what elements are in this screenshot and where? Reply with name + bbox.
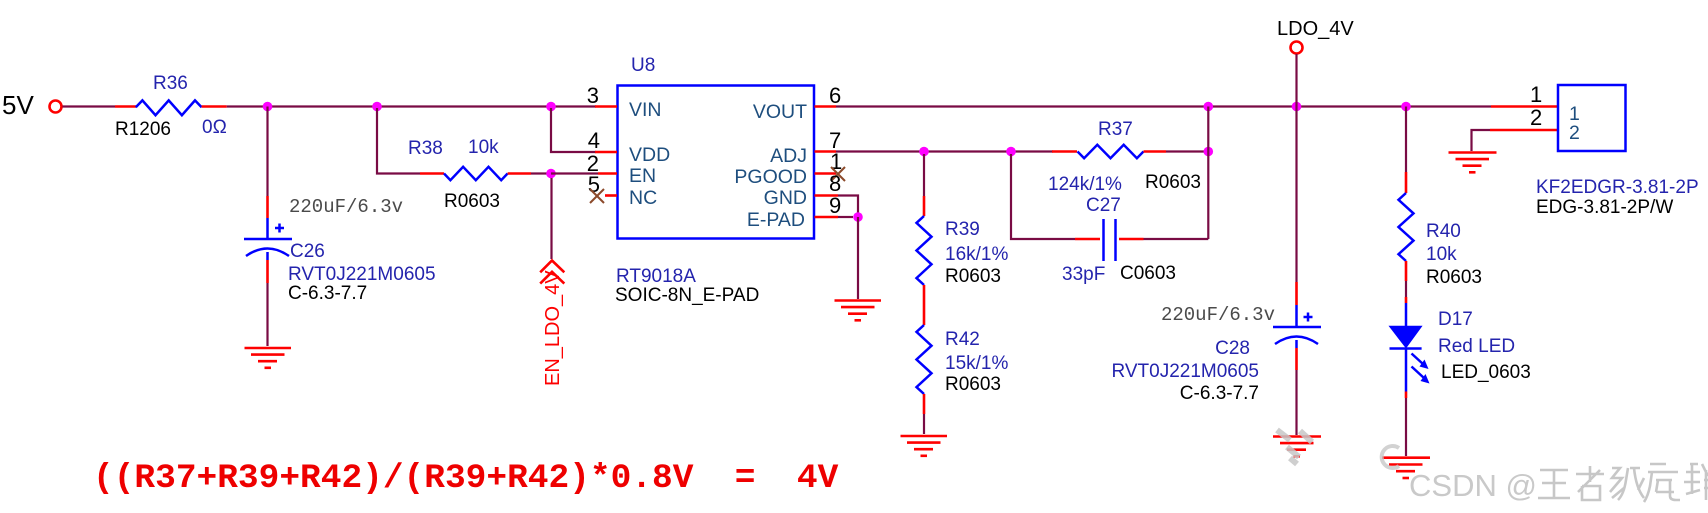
connector J pin 1 (1491, 82, 1558, 107)
svg-text:EN_LDO_4V: EN_LDO_4V (542, 270, 564, 386)
wang (1538, 470, 1570, 498)
junction (263, 102, 273, 112)
wire R40 to D17 (1405, 281, 1407, 297)
svg-text:R39: R39 (945, 219, 980, 240)
svg-text:220uF/6.3v: 220uF/6.3v (1161, 304, 1275, 326)
svg-text:10k: 10k (468, 137, 499, 158)
junction E-PAD (853, 212, 863, 222)
wire ADJ to R39 (923, 154, 925, 196)
svg-text:4: 4 (588, 128, 600, 153)
ji (1610, 468, 1644, 500)
svg-text:R42: R42 (945, 329, 980, 350)
svg-text:((R37+R39+R42)/(R39+R42)*0.8V: ((R37+R39+R42)/(R39+R42)*0.8V = 4V (93, 459, 839, 498)
fei (1644, 464, 1680, 502)
svg-text:R1206: R1206 (115, 119, 171, 140)
svg-text:C26: C26 (290, 241, 325, 262)
svg-text:2: 2 (1530, 105, 1542, 130)
wire E-PAD to ground (857, 217, 859, 299)
wire down to C26 (266, 107, 268, 197)
svg-text:16k/1%: 16k/1% (945, 244, 1008, 265)
wire C28 to ground (1295, 370, 1297, 435)
svg-text:R0603: R0603 (945, 374, 1001, 395)
svg-text:R36: R36 (153, 73, 188, 94)
svg-text:RVT0J221M0605: RVT0J221M0605 (288, 264, 436, 285)
svg-text:R0603: R0603 (1145, 172, 1201, 193)
wire R42 to ground (923, 414, 925, 434)
wire LDO_4V to C28 (1295, 107, 1297, 283)
pin 4 VDD (588, 128, 617, 153)
port EN_LDO_4V (540, 261, 564, 387)
svg-text:PGOOD: PGOOD (734, 166, 807, 188)
svg-text:EN: EN (629, 165, 656, 187)
wire EN junction to EN pin (551, 172, 598, 174)
wire down to EN_LDO_4V port (550, 178, 552, 259)
wire R36 to VIN pin (227, 105, 596, 107)
svg-text:C27: C27 (1086, 195, 1121, 216)
svg-text:C-6.3-7.7: C-6.3-7.7 (288, 283, 367, 304)
pin 7 ADJ (815, 128, 842, 153)
junction (1204, 147, 1214, 157)
svg-text:33pF: 33pF (1062, 264, 1105, 285)
wire R38 branch (377, 108, 420, 174)
resistor R36 (115, 73, 227, 140)
wire ADJ to C27 left (1011, 154, 1075, 239)
svg-text:3: 3 (587, 83, 599, 108)
svg-text:2: 2 (1569, 122, 1580, 144)
tie (1684, 464, 1708, 500)
svg-text:CSDN @: CSDN @ (1409, 468, 1537, 503)
junction (372, 102, 382, 112)
svg-text:R0603: R0603 (1426, 267, 1482, 288)
wire vertical VOUT to C27 (1207, 107, 1209, 240)
junction (1204, 102, 1214, 112)
wire ADJ net (836, 150, 1053, 152)
svg-text:VIN: VIN (629, 99, 662, 121)
svg-text:15k/1%: 15k/1% (945, 353, 1008, 374)
svg-text:R37: R37 (1098, 119, 1133, 140)
resistor R42 (917, 325, 1009, 414)
svg-text:C0603: C0603 (1120, 263, 1176, 284)
svg-text:220uF/6.3v: 220uF/6.3v (289, 196, 403, 218)
svg-text:10k: 10k (1426, 244, 1457, 265)
wire VOUT to R40 (1405, 107, 1407, 173)
resistor R39 (917, 196, 1009, 325)
svg-text:VOUT: VOUT (753, 101, 807, 123)
ground (901, 436, 948, 456)
wire 5V to R36 (63, 105, 116, 107)
junction (546, 102, 556, 112)
ground (245, 348, 292, 368)
resistor R37 (1048, 119, 1201, 195)
pin 2 EN (587, 151, 617, 176)
ground (1382, 458, 1430, 478)
svg-text:VDD: VDD (629, 144, 670, 166)
watermark smudge near D17 ground (1382, 446, 1399, 468)
pin 6 VOUT (815, 83, 842, 108)
pin 1 PGOOD (815, 149, 846, 181)
svg-text:C28: C28 (1215, 338, 1250, 359)
capacitor C28 (1111, 282, 1321, 404)
pin 8 GND (815, 171, 842, 196)
svg-text:NC: NC (629, 187, 657, 209)
LED D17 (1390, 297, 1531, 398)
svg-text:GND: GND (764, 187, 807, 209)
watermark smudge near C28 ground (1277, 430, 1312, 464)
resistor R38 (408, 137, 531, 212)
svg-text:6: 6 (829, 83, 841, 108)
svg-text:R38: R38 (408, 138, 443, 159)
ground (1273, 437, 1321, 457)
junction (1401, 102, 1411, 112)
pin 9 E-PAD (815, 193, 854, 218)
connector J pin 2 (1490, 105, 1558, 130)
connector KF2EDGR-3.81-2P (1536, 85, 1699, 218)
junction (919, 147, 929, 157)
ground (1449, 153, 1497, 173)
wire D17 to ground (1405, 398, 1407, 456)
zhe (1576, 466, 1604, 500)
resistor R40 (1399, 172, 1483, 288)
svg-text:Red LED: Red LED (1438, 336, 1515, 357)
IC U8 RT9018A (615, 55, 814, 306)
svg-text:124k/1%: 124k/1% (1048, 174, 1122, 195)
svg-text:EDG-3.81-2P/W: EDG-3.81-2P/W (1536, 197, 1673, 218)
svg-text:E-PAD: E-PAD (747, 209, 805, 231)
svg-text:R0603: R0603 (945, 266, 1001, 287)
junction (1006, 147, 1016, 157)
port 5V (2, 90, 62, 120)
svg-text:U8: U8 (631, 55, 655, 76)
capacitor C26 (244, 196, 436, 304)
junction EN (546, 169, 556, 179)
svg-text:9: 9 (829, 193, 841, 218)
wire R37 to vertical (1166, 150, 1208, 152)
wire VOUT net (836, 105, 1491, 107)
svg-text:LDO_4V: LDO_4V (1277, 18, 1354, 40)
svg-text:D17: D17 (1438, 309, 1473, 330)
no-ERC X on PGOOD (831, 167, 845, 181)
wire C26 to ground (266, 283, 268, 346)
svg-text:0Ω: 0Ω (202, 117, 227, 138)
wire pin2 to ground (1472, 130, 1491, 151)
svg-text:5V: 5V (2, 90, 34, 120)
svg-text:RT9018A: RT9018A (616, 266, 696, 287)
svg-text:LED_0603: LED_0603 (1441, 362, 1531, 383)
svg-text:RVT0J221M0605: RVT0J221M0605 (1111, 361, 1259, 382)
wire GND pin to E-PAD node (838, 196, 858, 218)
svg-text:R40: R40 (1426, 221, 1461, 242)
ground (835, 301, 882, 321)
no-ERC X on NC (590, 189, 604, 203)
capacitor C27 (1062, 195, 1176, 285)
svg-text:KF2EDGR-3.81-2P: KF2EDGR-3.81-2P (1536, 177, 1699, 198)
watermark CJK glyphs (1538, 464, 1708, 502)
svg-text:R0603: R0603 (444, 191, 500, 212)
pin 5 NC (588, 172, 617, 203)
pin 3 VIN (587, 83, 617, 108)
wire VDD branch (551, 108, 596, 152)
svg-text:SOIC-8N_E-PAD: SOIC-8N_E-PAD (615, 285, 759, 306)
wire R38 to EN junction (531, 172, 551, 174)
svg-text:C-6.3-7.7: C-6.3-7.7 (1180, 383, 1259, 404)
port LDO_4V (1277, 18, 1354, 107)
junction (1292, 102, 1302, 112)
svg-text:1: 1 (1530, 82, 1542, 107)
svg-text:ADJ: ADJ (770, 145, 807, 167)
wire C27 right to vertical (1144, 238, 1209, 240)
